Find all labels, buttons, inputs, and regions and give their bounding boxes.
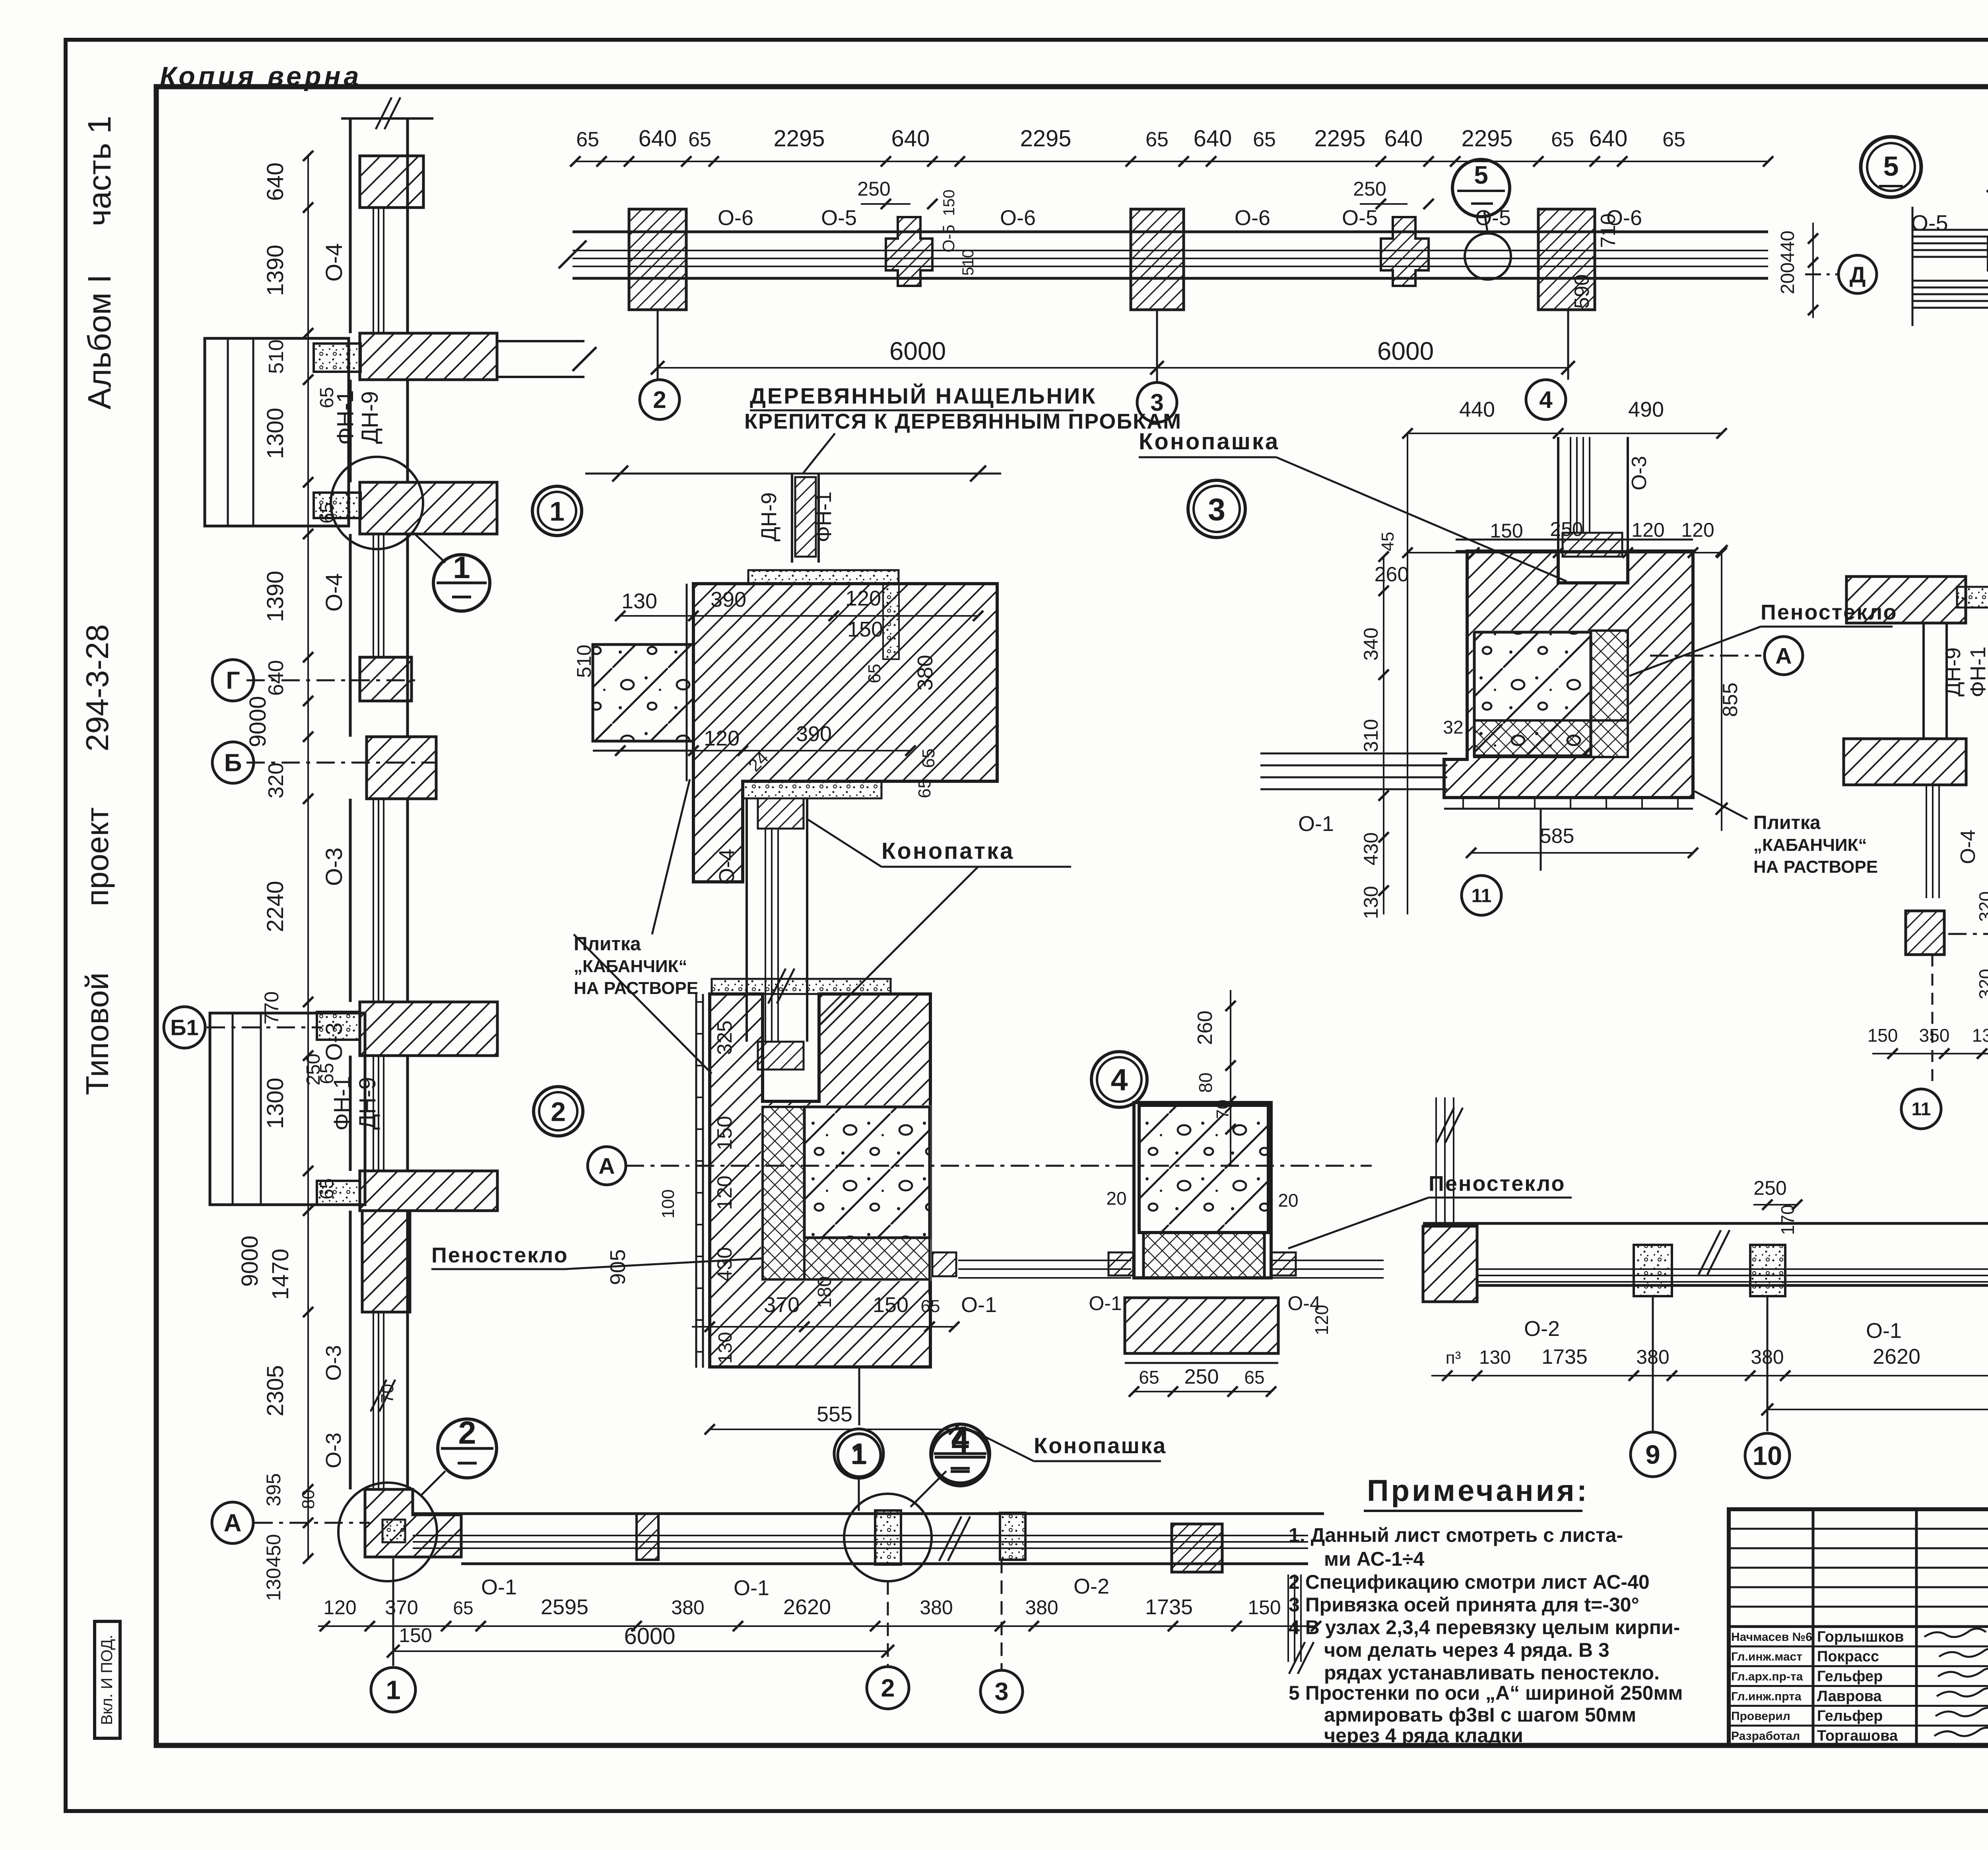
detail circle on speckled pier <box>844 1494 932 1581</box>
svg-text:О-1: О-1 <box>1089 1292 1122 1314</box>
svg-text:Конопашка: Конопашка <box>1034 1433 1167 1458</box>
leader konopatka to detail3 window <box>1276 457 1567 581</box>
axis line Б1 <box>207 1027 322 1029</box>
plain circle 1 bottomleft <box>834 1429 883 1478</box>
svg-text:4 В узлах 2,3,4 перевязку це: 4 В узлах 2,3,4 перевязку целым кирпи- <box>1289 1616 1680 1638</box>
top strip left end break <box>559 241 586 268</box>
detail3 window top <box>1557 437 1559 551</box>
svg-text:5: 5 <box>1474 161 1488 189</box>
inventory box Вкл.И ПОД. <box>95 1621 120 1738</box>
detail1 window head: frame <box>791 474 793 563</box>
window O-3 glazing third <box>373 799 374 1002</box>
axis line Г <box>247 679 421 681</box>
detail3 masonry L <box>1444 551 1693 798</box>
svg-text:4: 4 <box>1111 1063 1128 1097</box>
svg-text:150: 150 <box>1868 1025 1898 1046</box>
svg-text:3: 3 <box>1208 491 1225 527</box>
detail4 outline <box>1134 1103 1271 1278</box>
svg-text:О-1: О-1 <box>1298 812 1334 836</box>
svg-text:70: 70 <box>378 1384 397 1404</box>
svg-text:130: 130 <box>262 1568 285 1601</box>
svg-text:О-4: О-4 <box>321 573 347 612</box>
axis circle Г <box>212 660 254 701</box>
svg-text:Гл.инж.прта: Гл.инж.прта <box>1731 1690 1802 1703</box>
svg-text:555: 555 <box>817 1402 852 1426</box>
bottomright break <box>1699 1230 1721 1275</box>
svg-text:О-2: О-2 <box>1524 1317 1560 1341</box>
svg-text:32: 32 <box>1443 717 1463 738</box>
axis line Б <box>247 762 437 764</box>
svg-text:340: 340 <box>1360 627 1382 660</box>
svg-text:1390: 1390 <box>262 245 288 296</box>
axis balloon 3 bottomleft <box>1001 1560 1003 1670</box>
svg-text:О-4: О-4 <box>715 849 739 885</box>
detail1 inner dotted face <box>883 584 899 659</box>
svg-text:80: 80 <box>299 1490 318 1509</box>
svg-text:КРЕПИТСЯ К ДЕРЕВЯННЫМ ПРОБКАМ: КРЕПИТСЯ К ДЕРЕВЯННЫМ ПРОБКАМ <box>744 410 1182 433</box>
left strip dimension chain <box>307 156 309 1559</box>
svg-text:Б: Б <box>224 749 242 777</box>
detail2 foam glass L <box>763 1107 804 1279</box>
concrete insert <box>314 493 361 518</box>
svg-text:450: 450 <box>262 1534 285 1567</box>
midright wall verticals <box>1922 623 1925 739</box>
detail1 main masonry <box>693 584 997 882</box>
bottomright mortar pier 2 <box>1750 1245 1785 1296</box>
title block outer <box>1729 1509 1988 1745</box>
window glazing between bands <box>373 1056 374 1171</box>
detail1 tile band left <box>686 584 688 781</box>
bottomleft break <box>939 1516 961 1561</box>
svg-text:9000: 9000 <box>245 696 271 747</box>
svg-text:250: 250 <box>1550 518 1583 540</box>
top plan strip wall lines <box>573 231 1768 233</box>
svg-text:Лаврова: Лаврова <box>1817 1688 1882 1704</box>
detail4 concrete pier <box>1139 1105 1268 1233</box>
svg-text:проект: проект <box>80 807 115 906</box>
svg-text:О-3: О-3 <box>322 1345 346 1381</box>
svg-text:380: 380 <box>671 1596 704 1619</box>
svg-text:Примечания:: Примечания: <box>1367 1474 1589 1508</box>
svg-text:390: 390 <box>711 588 746 611</box>
detail2 masonry big <box>710 994 930 1367</box>
top strip pier axis 4 <box>1538 209 1595 310</box>
svg-text:Альбом I: Альбом I <box>82 274 118 410</box>
svg-text:1. Данный лист смотреть с: 1. Данный лист смотреть с листа- <box>1289 1524 1623 1546</box>
detail5 lower lines <box>1912 280 1988 282</box>
axis circle A detail2 <box>588 1147 626 1185</box>
svg-text:260: 260 <box>1194 1011 1217 1045</box>
svg-text:1470: 1470 <box>268 1248 293 1300</box>
svg-text:О-1: О-1 <box>481 1575 517 1599</box>
svg-text:11: 11 <box>1472 885 1492 907</box>
bottomleft pier speckled2 <box>1000 1513 1025 1560</box>
concrete sill block <box>314 344 361 372</box>
svg-text:Пеностекло: Пеностекло <box>431 1243 569 1267</box>
window O-4 glazing second <box>373 534 374 656</box>
svg-text:390: 390 <box>796 722 832 746</box>
balloon detail 2 label <box>534 1087 583 1136</box>
svg-text:Конопатка: Конопатка <box>881 838 1014 864</box>
svg-text:армировать ф3вI с шагом 50: армировать ф3вI с шагом 50мм <box>1324 1704 1636 1726</box>
svg-text:2: 2 <box>458 1415 476 1451</box>
bottomright left end block <box>1423 1226 1477 1302</box>
detail2 axis line A <box>626 1165 1372 1167</box>
floor band lower <box>360 1171 497 1211</box>
axis line Г right <box>1948 933 1988 935</box>
svg-text:65: 65 <box>688 128 711 151</box>
svg-text:640: 640 <box>639 126 677 151</box>
svg-text:2295: 2295 <box>1461 126 1512 151</box>
detail1 concrete sill <box>593 644 693 741</box>
detail2 concrete core <box>804 1107 930 1238</box>
svg-text:Пеностекло: Пеностекло <box>1429 1172 1566 1196</box>
svg-text:250: 250 <box>1184 1365 1219 1388</box>
svg-text:О-3: О-3 <box>322 1433 346 1468</box>
svg-text:65: 65 <box>1662 128 1685 151</box>
concrete insert corner <box>382 1520 405 1542</box>
svg-text:65: 65 <box>865 664 884 683</box>
detail4 window left <box>1109 1252 1133 1275</box>
axis circle Б1 <box>164 1007 205 1048</box>
svg-text:А: А <box>598 1153 615 1179</box>
pier leaders to axis balloons <box>657 310 659 380</box>
detail5 window sill lines left <box>1912 229 1988 231</box>
svg-text:640: 640 <box>1384 126 1423 151</box>
detail1 mortar band top <box>748 570 899 584</box>
svg-text:Проверил: Проверил <box>1731 1710 1790 1723</box>
svg-text:65: 65 <box>1551 128 1574 151</box>
detail4 sill block hatch <box>1125 1298 1278 1353</box>
bottomleft wall lines <box>413 1512 1324 1515</box>
axis circle A detail3 <box>1765 637 1803 675</box>
window O-3 glazing fourth <box>373 1312 374 1489</box>
svg-text:2620: 2620 <box>783 1595 831 1619</box>
svg-text:ми АС-1÷4: ми АС-1÷4 <box>1324 1548 1424 1570</box>
leader from nashelnik to window <box>803 433 835 473</box>
svg-text:380: 380 <box>913 655 937 691</box>
svg-text:5: 5 <box>1883 151 1899 182</box>
detail2 tile edge left <box>695 994 697 1368</box>
svg-text:120: 120 <box>323 1596 356 1619</box>
svg-text:65: 65 <box>1244 1367 1264 1388</box>
svg-text:120: 120 <box>1311 1305 1332 1336</box>
window O-1 plan left of detail3 <box>1260 753 1447 755</box>
svg-text:1390: 1390 <box>262 571 288 622</box>
midright lower dims <box>1872 1053 1988 1054</box>
svg-text:Покрасс: Покрасс <box>1817 1648 1879 1665</box>
svg-text:65: 65 <box>316 387 338 408</box>
svg-text:2295: 2295 <box>1314 126 1365 151</box>
svg-text:80: 80 <box>1195 1072 1216 1093</box>
svg-text:320: 320 <box>264 763 288 798</box>
leader to section 4 mark <box>911 1471 946 1507</box>
balloon detail 3 label <box>1188 480 1245 538</box>
svg-text:770: 770 <box>260 991 283 1024</box>
svg-text:„КАБАНЧИК“: „КАБАНЧИК“ <box>574 957 687 976</box>
svg-text:380: 380 <box>920 1596 953 1619</box>
svg-text:250: 250 <box>1753 1177 1786 1199</box>
svg-text:440: 440 <box>1459 398 1495 421</box>
svg-text:2305: 2305 <box>262 1365 288 1416</box>
detail circle on floor band 2 <box>331 457 423 549</box>
window sill wood blocks entering detail2 <box>758 1042 804 1070</box>
floor band with hatched lintel <box>360 333 497 380</box>
svg-text:Начмасев №6: Начмасев №6 <box>1731 1631 1812 1644</box>
window O-4 glazing <box>373 208 374 333</box>
svg-text:5 Простенки по оси „А“ шир: 5 Простенки по оси „А“ шириной 250мм <box>1289 1682 1683 1704</box>
svg-text:Типовой: Типовой <box>80 973 115 1095</box>
midright upper band <box>1846 577 1966 623</box>
midright small block <box>1906 911 1944 955</box>
balloon section 4 below detail2 <box>932 1429 989 1486</box>
svg-text:370: 370 <box>385 1596 418 1619</box>
bottomright glazing <box>1477 1268 1988 1270</box>
svg-text:О-3: О-3 <box>321 1023 347 1061</box>
detail3 foamglass square <box>1591 631 1628 720</box>
svg-text:О-6: О-6 <box>718 206 753 230</box>
svg-text:250: 250 <box>857 178 890 200</box>
axis balloon 3 <box>1137 382 1177 422</box>
detail2 mortar band top <box>712 979 891 994</box>
svg-text:1: 1 <box>549 496 565 526</box>
midright glazing below <box>1926 785 1927 898</box>
svg-text:440: 440 <box>1777 231 1798 262</box>
svg-text:Плитка: Плитка <box>1753 812 1821 833</box>
detail3 tile band top <box>1456 539 1693 541</box>
axis balloon 1 bottomleft <box>392 1559 394 1666</box>
axis circle A <box>212 1502 253 1543</box>
svg-text:Д: Д <box>1850 262 1866 287</box>
midright lower band <box>1844 739 1966 785</box>
svg-text:6000: 6000 <box>1377 337 1434 365</box>
svg-text:О-2: О-2 <box>1074 1574 1109 1598</box>
detail2 inner white underlay <box>761 1105 931 1281</box>
balloon 11 below detail3 <box>1540 809 1542 871</box>
bottomleft glazing <box>413 1535 1308 1536</box>
svg-text:120: 120 <box>713 1176 736 1210</box>
svg-text:Торгашова: Торгашова <box>1817 1728 1898 1744</box>
detail4 window right <box>1271 1260 1384 1261</box>
svg-text:640: 640 <box>891 126 930 151</box>
svg-text:О-6: О-6 <box>1235 206 1270 230</box>
svg-text:150: 150 <box>873 1293 909 1317</box>
bottomleft pier speckled <box>875 1510 901 1565</box>
svg-text:Г: Г <box>226 667 240 695</box>
svg-text:1300: 1300 <box>262 1077 288 1129</box>
svg-text:рядах устанавливать пеностек: рядах устанавливать пеностекло. <box>1324 1662 1660 1684</box>
svg-text:2595: 2595 <box>541 1595 588 1619</box>
svg-text:170: 170 <box>1777 1205 1798 1235</box>
svg-text:2 Спецификацию смотри лист: 2 Спецификацию смотри лист АС-40 <box>1289 1571 1650 1593</box>
corner block at axis A <box>365 1489 461 1557</box>
bottomright mortar pier 1 <box>1634 1245 1672 1296</box>
svg-text:Горлышков: Горлышков <box>1817 1629 1904 1645</box>
svg-text:Гл.инж.маст: Гл.инж.маст <box>1731 1650 1802 1664</box>
svg-text:НА РАСТВОРЕ: НА РАСТВОРЕ <box>574 978 698 998</box>
svg-text:Б1: Б1 <box>170 1015 198 1040</box>
svg-text:640: 640 <box>1194 126 1232 151</box>
svg-text:часть 1: часть 1 <box>82 116 118 226</box>
svg-text:1: 1 <box>453 550 470 585</box>
window plan box upper-left <box>205 338 349 526</box>
svg-text:120: 120 <box>704 726 740 750</box>
svg-text:А: А <box>224 1510 242 1537</box>
svg-text:Конопашка: Конопашка <box>1139 429 1279 454</box>
detail circle corner A <box>338 1483 437 1581</box>
svg-text:120: 120 <box>1631 519 1664 541</box>
svg-text:320: 320 <box>1975 891 1988 922</box>
svg-text:250: 250 <box>1353 178 1386 200</box>
svg-text:1: 1 <box>386 1675 400 1705</box>
svg-text:1735: 1735 <box>1541 1345 1588 1369</box>
svg-text:640: 640 <box>264 660 288 696</box>
detail3 concrete core <box>1474 632 1591 756</box>
svg-text:45: 45 <box>1378 532 1398 551</box>
axis balloon 4 <box>1526 380 1566 419</box>
svg-text:ФН-1: ФН-1 <box>812 491 836 542</box>
svg-text:ДЕРЕВЯННЫЙ НАЩЕЛЬНИК: ДЕРЕВЯННЫЙ НАЩЕЛЬНИК <box>750 383 1097 408</box>
svg-text:640: 640 <box>1589 126 1628 151</box>
svg-text:через 4 ряда кладки: через 4 ряда кладки <box>1324 1724 1523 1747</box>
svg-text:О-4: О-4 <box>1957 830 1980 864</box>
svg-text:2: 2 <box>653 386 666 413</box>
svg-text:НА РАСТВОРЕ: НА РАСТВОРЕ <box>1753 857 1878 877</box>
svg-text:65: 65 <box>316 1178 338 1199</box>
tall hatched pier <box>362 1211 410 1312</box>
svg-text:1: 1 <box>850 1437 867 1470</box>
bottomleft pier hatched <box>637 1514 658 1560</box>
svg-text:65: 65 <box>915 779 934 798</box>
svg-text:О-3: О-3 <box>1628 456 1651 491</box>
detail1 dim lines <box>620 615 978 617</box>
bottomright wall lines <box>1423 1222 1988 1225</box>
svg-text:3 Привязка осей принята д: 3 Привязка осей принята для t=-30° <box>1289 1594 1639 1616</box>
top strip pier axis 2 <box>629 209 686 310</box>
leader пеностекло to foamglass <box>574 934 712 1074</box>
svg-text:1300: 1300 <box>262 408 288 459</box>
detail1 window below <box>745 798 748 1042</box>
svg-text:4: 4 <box>951 1420 969 1456</box>
svg-text:20: 20 <box>1278 1190 1298 1211</box>
svg-text:65: 65 <box>1986 627 1988 646</box>
svg-text:130: 130 <box>1972 1025 1988 1046</box>
svg-text:200: 200 <box>1777 262 1798 294</box>
svg-text:180: 180 <box>814 1276 835 1308</box>
section mark 4 bottomleft <box>931 1424 990 1483</box>
svg-text:9: 9 <box>1645 1440 1660 1470</box>
svg-text:260: 260 <box>1375 563 1409 586</box>
top strip small pier 2 <box>1381 217 1429 286</box>
svg-text:4: 4 <box>1539 386 1553 413</box>
svg-text:Разработал: Разработал <box>1731 1730 1800 1743</box>
svg-text:150: 150 <box>713 1116 736 1151</box>
detail5 end ticks <box>1912 207 1914 326</box>
detail2 window right <box>928 1257 931 1295</box>
left wall section: wall face lines <box>349 119 352 333</box>
svg-text:9000: 9000 <box>237 1235 263 1287</box>
lintel block <box>360 156 423 208</box>
svg-text:3: 3 <box>994 1678 1008 1706</box>
floor band at axis Б1 <box>360 1002 497 1056</box>
svg-text:510: 510 <box>265 340 288 374</box>
svg-text:65: 65 <box>1145 128 1169 151</box>
svg-text:250: 250 <box>303 1054 324 1085</box>
svg-text:2240: 2240 <box>262 881 288 932</box>
svg-text:О-1: О-1 <box>1866 1319 1902 1343</box>
svg-text:380: 380 <box>1025 1596 1058 1619</box>
svg-text:ФН-1: ФН-1 <box>1966 646 1988 697</box>
balloon detail 1 label <box>532 486 582 536</box>
svg-text:150: 150 <box>940 190 958 216</box>
top dimension line <box>575 161 1768 162</box>
svg-text:640: 640 <box>262 163 288 201</box>
section mark 2 <box>438 1419 497 1478</box>
svg-text:65: 65 <box>316 502 338 523</box>
svg-text:Вкл. И ПОД.: Вкл. И ПОД. <box>98 1635 116 1725</box>
svg-text:6000: 6000 <box>624 1623 675 1649</box>
svg-text:2: 2 <box>551 1097 566 1127</box>
svg-text:590: 590 <box>1571 274 1594 309</box>
svg-text:65: 65 <box>919 749 938 768</box>
svg-text:2620: 2620 <box>1873 1345 1920 1369</box>
balloon axis 1 below detail2 <box>858 1367 860 1425</box>
svg-text:О-3: О-3 <box>321 848 347 886</box>
svg-text:п³: п³ <box>1446 1348 1461 1368</box>
axis line A <box>254 1522 370 1524</box>
svg-text:430: 430 <box>1360 832 1382 865</box>
section mark 1 <box>433 555 490 611</box>
top strip pier axis 3 <box>1131 209 1184 310</box>
svg-text:120: 120 <box>845 586 881 610</box>
svg-text:150: 150 <box>1248 1596 1281 1619</box>
window plan box lower-left <box>210 1013 365 1205</box>
bottomleft right corner <box>1172 1524 1222 1572</box>
detail3 inner white underlay <box>1473 631 1629 757</box>
svg-text:65: 65 <box>1253 128 1276 151</box>
svg-text:Гельфер: Гельфер <box>1817 1668 1883 1685</box>
svg-text:150: 150 <box>399 1624 432 1646</box>
svg-text:10: 10 <box>1753 1441 1782 1471</box>
svg-text:ДН-9: ДН-9 <box>357 391 383 444</box>
svg-text:65: 65 <box>453 1598 473 1618</box>
detail1 mortar band bottom <box>743 781 881 798</box>
svg-text:585: 585 <box>1540 825 1574 848</box>
title block left table <box>1812 1509 1815 1745</box>
svg-text:О-4: О-4 <box>321 243 347 282</box>
svg-text:2295: 2295 <box>1020 126 1071 151</box>
balloon 5 on top strip <box>1452 159 1510 217</box>
svg-text:65: 65 <box>1139 1367 1159 1388</box>
lintel block at axis Б <box>367 737 436 799</box>
top strip glazing <box>573 250 1768 251</box>
svg-text:А: А <box>1775 643 1792 669</box>
svg-text:120: 120 <box>1681 519 1714 541</box>
balloon 11 midright <box>1932 955 1934 1085</box>
svg-text:О-5: О-5 <box>939 225 958 252</box>
axis balloon 2 <box>640 380 679 419</box>
svg-text:Гельфер: Гельфер <box>1817 1708 1883 1724</box>
svg-text:6000: 6000 <box>889 337 946 365</box>
svg-text:370: 370 <box>764 1293 800 1317</box>
break mark top of left wall <box>341 117 433 120</box>
svg-text:310: 310 <box>1360 719 1382 752</box>
balloon detail 4 label <box>1091 1052 1147 1107</box>
svg-text:150: 150 <box>1490 520 1523 542</box>
svg-text:350: 350 <box>1919 1025 1950 1046</box>
svg-text:2295: 2295 <box>773 126 825 151</box>
svg-text:65: 65 <box>1986 714 1988 733</box>
